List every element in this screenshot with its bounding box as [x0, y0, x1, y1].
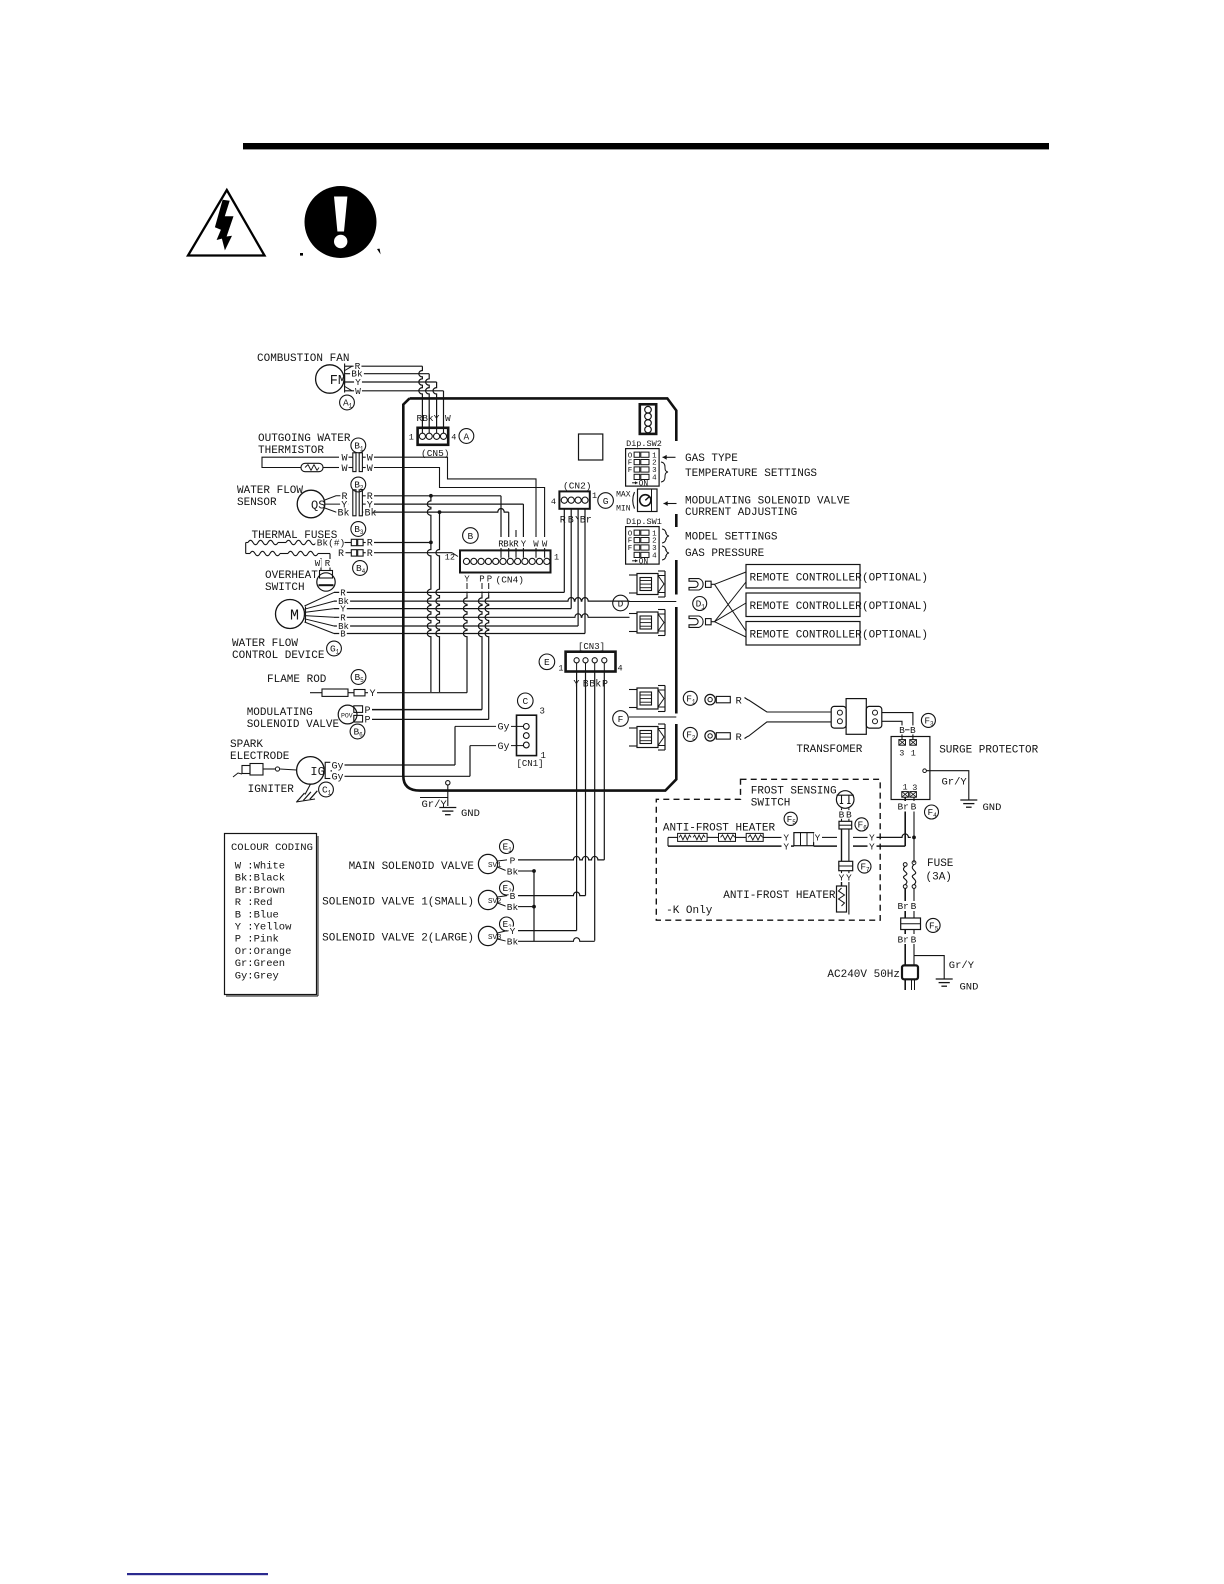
svg-text:Y: Y [521, 540, 527, 550]
svg-text:FROST SENSING: FROST SENSING [751, 786, 837, 798]
svg-text:[CN3]: [CN3] [578, 642, 605, 652]
svg-text:-K Only: -K Only [666, 905, 713, 917]
svg-text:SV3: SV3 [488, 934, 502, 942]
svg-text:3: 3 [899, 749, 904, 759]
svg-text:TEMPERATURE SETTINGS: TEMPERATURE SETTINGS [685, 468, 817, 480]
svg-text:Gr/Y: Gr/Y [942, 777, 968, 789]
svg-text:CURRENT ADJUSTING: CURRENT ADJUSTING [685, 507, 797, 519]
svg-text:GND: GND [960, 982, 979, 994]
svg-text:4: 4 [933, 812, 937, 819]
svg-text:P: P [510, 855, 516, 866]
svg-text:W: W [341, 464, 347, 475]
svg-text:SENSOR: SENSOR [237, 497, 277, 509]
svg-text:P: P [602, 680, 608, 691]
svg-text:1: 1 [336, 649, 340, 656]
svg-text:3: 3 [360, 529, 364, 536]
svg-text:P: P [487, 575, 492, 585]
svg-text:SOLENOID VALVE 1(SMALL): SOLENOID VALVE 1(SMALL) [322, 897, 474, 909]
svg-text:4: 4 [618, 664, 623, 674]
svg-text:1: 1 [360, 446, 364, 453]
svg-text:1: 1 [701, 604, 705, 611]
svg-text:5: 5 [360, 677, 364, 684]
svg-text:GND: GND [983, 802, 1002, 814]
svg-text:MODULATING SOLENOID VALVE: MODULATING SOLENOID VALVE [685, 496, 850, 508]
svg-text:CONTROL DEVICE: CONTROL DEVICE [232, 650, 325, 662]
svg-text:A: A [464, 431, 470, 442]
svg-text:1: 1 [328, 790, 332, 797]
svg-text:THERMISTOR: THERMISTOR [258, 445, 324, 457]
svg-text:7: 7 [866, 867, 870, 874]
svg-text:W: W [533, 540, 539, 550]
svg-text:Y: Y [815, 833, 821, 844]
svg-text:WATER FLOW: WATER FLOW [232, 638, 298, 650]
svg-text:5: 5 [935, 926, 939, 933]
svg-text:B: B [911, 935, 917, 946]
svg-text:R: R [338, 549, 344, 560]
svg-text:1: 1 [911, 749, 916, 759]
svg-text:SOLENOID VALVE 2(LARGE): SOLENOID VALVE 2(LARGE) [322, 933, 474, 945]
svg-text:B: B [899, 725, 905, 736]
svg-text:ANTI-FROST HEATER: ANTI-FROST HEATER [723, 890, 836, 902]
svg-text:5: 5 [792, 819, 796, 826]
svg-text:F: F [628, 545, 633, 553]
svg-text:1: 1 [508, 847, 512, 854]
svg-text:QS: QS [311, 499, 325, 513]
svg-text:[CN1]: [CN1] [517, 759, 544, 769]
svg-text:R: R [367, 549, 373, 560]
svg-text:Br: Br [897, 935, 908, 946]
svg-text:W: W [367, 464, 373, 475]
svg-text:Y: Y [846, 873, 852, 884]
svg-text:B :Blue: B :Blue [235, 909, 279, 921]
svg-text:1: 1 [409, 433, 414, 443]
svg-text:GND: GND [461, 808, 480, 820]
svg-text:2: 2 [692, 735, 696, 742]
svg-text:Bk: Bk [507, 937, 519, 948]
svg-text:W: W [542, 540, 548, 550]
svg-text:SV1: SV1 [488, 862, 502, 870]
svg-text:(CN4): (CN4) [496, 575, 525, 586]
svg-text:4: 4 [451, 433, 456, 443]
svg-text:Bk(#): Bk(#) [317, 538, 346, 549]
svg-text:Gy: Gy [497, 723, 509, 734]
svg-text:R :Red: R :Red [235, 897, 273, 909]
svg-text:SURGE PROTECTOR: SURGE PROTECTOR [939, 745, 1038, 757]
svg-text:G: G [603, 496, 609, 507]
svg-text:D: D [618, 598, 624, 609]
svg-text:OUTGOING WATER: OUTGOING WATER [258, 433, 351, 445]
svg-text:ON: ON [639, 557, 649, 566]
svg-text:ELECTRODE: ELECTRODE [230, 751, 290, 763]
svg-text:MAIN SOLENOID VALVE: MAIN SOLENOID VALVE [349, 861, 475, 873]
svg-text:AC240V 50Hz: AC240V 50Hz [827, 969, 900, 981]
svg-text:Y: Y [869, 841, 875, 852]
svg-text:B: B [340, 630, 346, 640]
svg-text:1: 1 [902, 783, 907, 793]
svg-text:RBkY W: RBkY W [417, 413, 452, 424]
svg-text:COLOUR CODING: COLOUR CODING [231, 842, 313, 854]
svg-text:B: B [468, 531, 474, 542]
svg-text:B: B [510, 891, 516, 902]
svg-text:P :Pink: P :Pink [235, 934, 279, 946]
svg-text:POV: POV [341, 713, 353, 720]
svg-text:1: 1 [349, 403, 353, 410]
svg-text:Dip.SW2: Dip.SW2 [626, 439, 662, 449]
svg-text:3: 3 [930, 721, 934, 728]
svg-text:1: 1 [692, 699, 696, 706]
svg-text:B: B [911, 901, 917, 912]
svg-text:FUSE: FUSE [927, 858, 954, 870]
svg-text:E: E [544, 657, 550, 668]
svg-text:W: W [355, 386, 361, 397]
svg-text:Y: Y [510, 926, 516, 937]
svg-text:1: 1 [554, 553, 559, 563]
svg-text:M: M [290, 608, 299, 625]
svg-text:B: B [911, 802, 917, 813]
svg-text:REMOTE CONTROLLER: REMOTE CONTROLLER [750, 601, 863, 613]
svg-text:Gr/Y: Gr/Y [949, 960, 975, 972]
svg-text:SOLENOID VALVE: SOLENOID VALVE [247, 719, 340, 731]
svg-text:Or:Orange: Or:Orange [235, 946, 292, 958]
svg-text:P: P [479, 575, 484, 585]
svg-text:4: 4 [652, 475, 657, 483]
svg-text:P: P [364, 716, 370, 727]
svg-text:6: 6 [359, 732, 363, 739]
svg-text:Bk: Bk [507, 902, 519, 913]
svg-text:Gy: Gy [331, 773, 343, 784]
svg-text:SWITCH: SWITCH [751, 798, 791, 810]
svg-text:R: R [513, 540, 519, 550]
svg-text:ANTI-FROST HEATER: ANTI-FROST HEATER [663, 823, 776, 835]
svg-text:Dip.SW1: Dip.SW1 [626, 517, 662, 527]
svg-text:Gy:Grey: Gy:Grey [235, 970, 279, 982]
svg-text:4: 4 [551, 497, 556, 507]
svg-text:12: 12 [445, 553, 455, 563]
svg-text:REMOTE CONTROLLER: REMOTE CONTROLLER [750, 572, 863, 584]
svg-text:GAS PRESSURE: GAS PRESSURE [685, 548, 765, 560]
svg-text:FLAME ROD: FLAME ROD [267, 674, 327, 686]
svg-text:Br: Br [897, 802, 908, 813]
svg-text:F: F [628, 467, 633, 475]
svg-text:MODULATING: MODULATING [247, 707, 313, 719]
svg-text:6: 6 [863, 825, 867, 832]
svg-text:Gr:Green: Gr:Green [235, 958, 285, 970]
svg-text:SWITCH: SWITCH [265, 582, 305, 594]
svg-text:Gy: Gy [331, 761, 343, 772]
svg-text:B: B [910, 725, 916, 736]
svg-text:F: F [618, 714, 624, 725]
svg-text:Bk:Black: Bk:Black [235, 873, 285, 885]
svg-text:SV2: SV2 [488, 898, 502, 906]
svg-text:1: 1 [592, 491, 597, 501]
svg-text:Y: Y [839, 873, 845, 884]
svg-text:Y: Y [464, 575, 470, 585]
svg-text:GAS TYPE: GAS TYPE [685, 453, 738, 465]
svg-text:4: 4 [362, 568, 366, 575]
svg-text:FM: FM [330, 374, 346, 389]
svg-text:C: C [522, 696, 528, 707]
svg-text:W :White: W :White [235, 861, 285, 873]
svg-text:Y: Y [783, 841, 789, 852]
svg-text:(OPTIONAL): (OPTIONAL) [862, 572, 928, 584]
svg-text:1: 1 [558, 664, 563, 674]
svg-text:COMBUSTION FAN: COMBUSTION FAN [257, 353, 349, 365]
svg-text:MODEL SETTINGS: MODEL SETTINGS [685, 532, 778, 544]
svg-text:R: R [736, 696, 743, 708]
svg-text:1: 1 [541, 751, 546, 761]
svg-text:(OPTIONAL): (OPTIONAL) [862, 629, 928, 641]
svg-text:(3A): (3A) [926, 872, 952, 884]
svg-text:R: R [736, 732, 743, 744]
svg-text:MIN: MIN [616, 505, 631, 514]
svg-text:REMOTE CONTROLLER: REMOTE CONTROLLER [750, 629, 863, 641]
svg-text:SPARK: SPARK [230, 739, 263, 751]
svg-text:Gr/Y: Gr/Y [422, 799, 448, 811]
svg-text:Br: Br [897, 901, 908, 912]
svg-text:WATER FLOW: WATER FLOW [237, 485, 303, 497]
svg-text:3: 3 [540, 707, 545, 717]
svg-text:R: R [325, 559, 331, 569]
svg-text:R: R [560, 516, 566, 527]
svg-text:ON: ON [639, 479, 649, 488]
svg-text:Gy: Gy [497, 742, 509, 753]
svg-text:Bk: Bk [364, 507, 376, 519]
svg-text:OVERHEAT: OVERHEAT [265, 570, 318, 582]
svg-text:(OPTIONAL): (OPTIONAL) [862, 601, 928, 613]
svg-text:Y :Yellow: Y :Yellow [235, 922, 292, 934]
svg-text:Br:Brown: Br:Brown [235, 885, 285, 897]
svg-text:IGNITER: IGNITER [248, 784, 295, 796]
svg-text:IG: IG [310, 765, 324, 779]
svg-text:Bk: Bk [337, 507, 349, 519]
svg-text:TRANSFOMER: TRANSFOMER [796, 744, 862, 756]
svg-text:Bk: Bk [507, 866, 519, 877]
svg-text:(CN2): (CN2) [563, 481, 592, 492]
svg-text:W: W [315, 559, 321, 569]
svg-text:Y: Y [369, 689, 375, 700]
svg-text:MAX: MAX [616, 491, 631, 500]
svg-text:4: 4 [652, 553, 657, 561]
svg-text:Br: Br [580, 516, 592, 527]
